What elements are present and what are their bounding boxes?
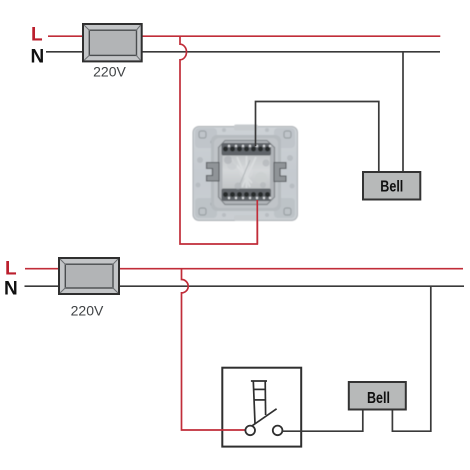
svg-text:Bell: Bell xyxy=(380,178,403,195)
svg-text:N: N xyxy=(4,279,18,300)
svg-text:220V: 220V xyxy=(71,303,104,319)
svg-text:N: N xyxy=(31,47,45,68)
svg-text:L: L xyxy=(31,25,43,46)
svg-text:220V: 220V xyxy=(93,64,126,80)
svg-text:Bell: Bell xyxy=(367,390,390,407)
svg-text:L: L xyxy=(5,259,17,280)
